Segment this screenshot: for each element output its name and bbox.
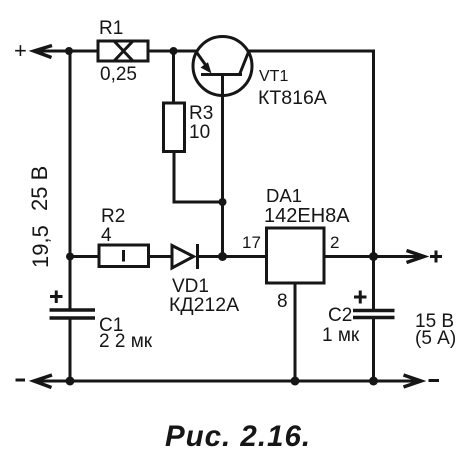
label KD212A: [169, 294, 239, 316]
diode VD1 KD212A: [172, 244, 198, 269]
svg-text:VT1: VT1: [259, 68, 288, 85]
svg-text:17: 17: [242, 233, 261, 252]
output arrow (right): [407, 251, 425, 263]
wire VD1 to DA1 input: [198, 255, 267, 258]
svg-text:R3: R3: [189, 103, 213, 124]
node: junction right rail / output: [369, 252, 378, 261]
node: junction pin8 / bottom: [291, 377, 300, 386]
node: junction left rail / top wire: [65, 47, 73, 55]
wire VT1 base lead down: [221, 75, 224, 257]
node: junction right rail / bottom: [369, 377, 378, 386]
+ polarity C2: [354, 291, 367, 304]
label R2: [101, 206, 125, 227]
wire R3 top hang: [172, 51, 175, 103]
label R1: [99, 18, 123, 39]
wire output to arrow: [374, 255, 422, 258]
capacitor C1 2.2uF: [50, 310, 96, 318]
svg-text:8: 8: [277, 291, 288, 312]
wire R2 to VD1: [149, 255, 173, 258]
wire R1 to VT1 emitter: [148, 50, 196, 53]
svg-text:R1: R1: [99, 18, 123, 39]
pin label 17: [242, 233, 261, 252]
transistor VT1 KT816A (PNP): [193, 37, 252, 96]
svg-text:КТ816А: КТ816А: [258, 87, 327, 109]
minus terminal bottom-right: [429, 379, 440, 382]
caption Fig 2.16: [165, 420, 311, 453]
svg-text:DA1: DA1: [266, 185, 302, 206]
svg-text:4: 4: [101, 225, 112, 246]
label VD1: [172, 276, 209, 297]
label C1: [99, 315, 123, 336]
+ input terminal (top left): [14, 38, 27, 63]
value 2 2 mk: [99, 331, 153, 352]
label VT1: [259, 68, 288, 85]
resistor R2 (1 W): [99, 245, 149, 267]
+ output terminal: [430, 251, 442, 263]
value 10: [189, 122, 210, 143]
label 142EN8A: [264, 205, 350, 227]
value 1 mk: [322, 325, 360, 346]
label 19,5 (rotated): [28, 225, 53, 268]
svg-text:R2: R2: [101, 206, 125, 227]
capacitor C2 1uF: [353, 311, 395, 318]
node: junction base line / input line: [218, 252, 227, 261]
svg-text:+: +: [14, 38, 27, 63]
input arrow top-left: [34, 46, 52, 58]
label DA1: [266, 185, 302, 206]
wire: left rail upper: [69, 51, 72, 309]
+ polarity C1: [50, 291, 63, 304]
label 15 V: [415, 311, 454, 332]
node: junction left rail / R2 line: [66, 253, 74, 261]
svg-text:C2: C2: [328, 305, 352, 326]
bottom-right arrow: [404, 375, 422, 387]
label C2: [328, 305, 352, 326]
pin label 2: [330, 233, 339, 252]
wire right rail lower: [372, 319, 375, 381]
node: junction R3 top: [170, 47, 178, 55]
node: junction left rail / bottom: [66, 377, 75, 386]
svg-text:2: 2: [330, 233, 339, 252]
wire DA1 output to right rail: [324, 255, 374, 258]
IC DA1 142EN8A: [267, 228, 325, 283]
value 0,25: [100, 64, 137, 85]
label (5 A): [415, 328, 456, 349]
svg-text:(5 А): (5 А): [415, 328, 456, 349]
svg-text:1 мк: 1 мк: [322, 325, 360, 346]
svg-text:19,5: 19,5: [28, 225, 53, 268]
svg-text:КД212А: КД212А: [169, 294, 239, 316]
wire DA1 pin 8 down: [294, 283, 297, 381]
label KT816A: [258, 87, 327, 109]
wire collector to right rail: [248, 50, 374, 53]
wire: right rail upper: [372, 51, 374, 309]
wire left rail lower: [69, 320, 72, 382]
svg-text:2 2 мк: 2 2 мк: [99, 331, 153, 352]
svg-text:10: 10: [189, 122, 210, 143]
value 4: [101, 225, 112, 246]
label R3: [189, 103, 213, 124]
bottom rail wire: [35, 380, 421, 383]
svg-text:0,25: 0,25: [100, 64, 137, 85]
svg-text:142ЕН8А: 142ЕН8А: [264, 205, 350, 227]
node: junction base / R3: [219, 198, 227, 206]
svg-text:25 В: 25 В: [27, 166, 52, 211]
wire top-left: arrow to R1: [35, 50, 98, 53]
svg-text:Рис. 2.16.: Рис. 2.16.: [165, 420, 311, 453]
pin label 8: [277, 291, 288, 312]
resistor R3: [164, 103, 185, 152]
resistor R1 (fusible, 0.25): [98, 41, 148, 61]
wire R3 bottom to base node: [174, 152, 223, 203]
bottom-left arrow: [34, 375, 52, 388]
minus terminal bottom-left: [16, 379, 26, 382]
wire left rail to R2: [70, 255, 99, 258]
label 25 V (rotated): [27, 166, 52, 211]
